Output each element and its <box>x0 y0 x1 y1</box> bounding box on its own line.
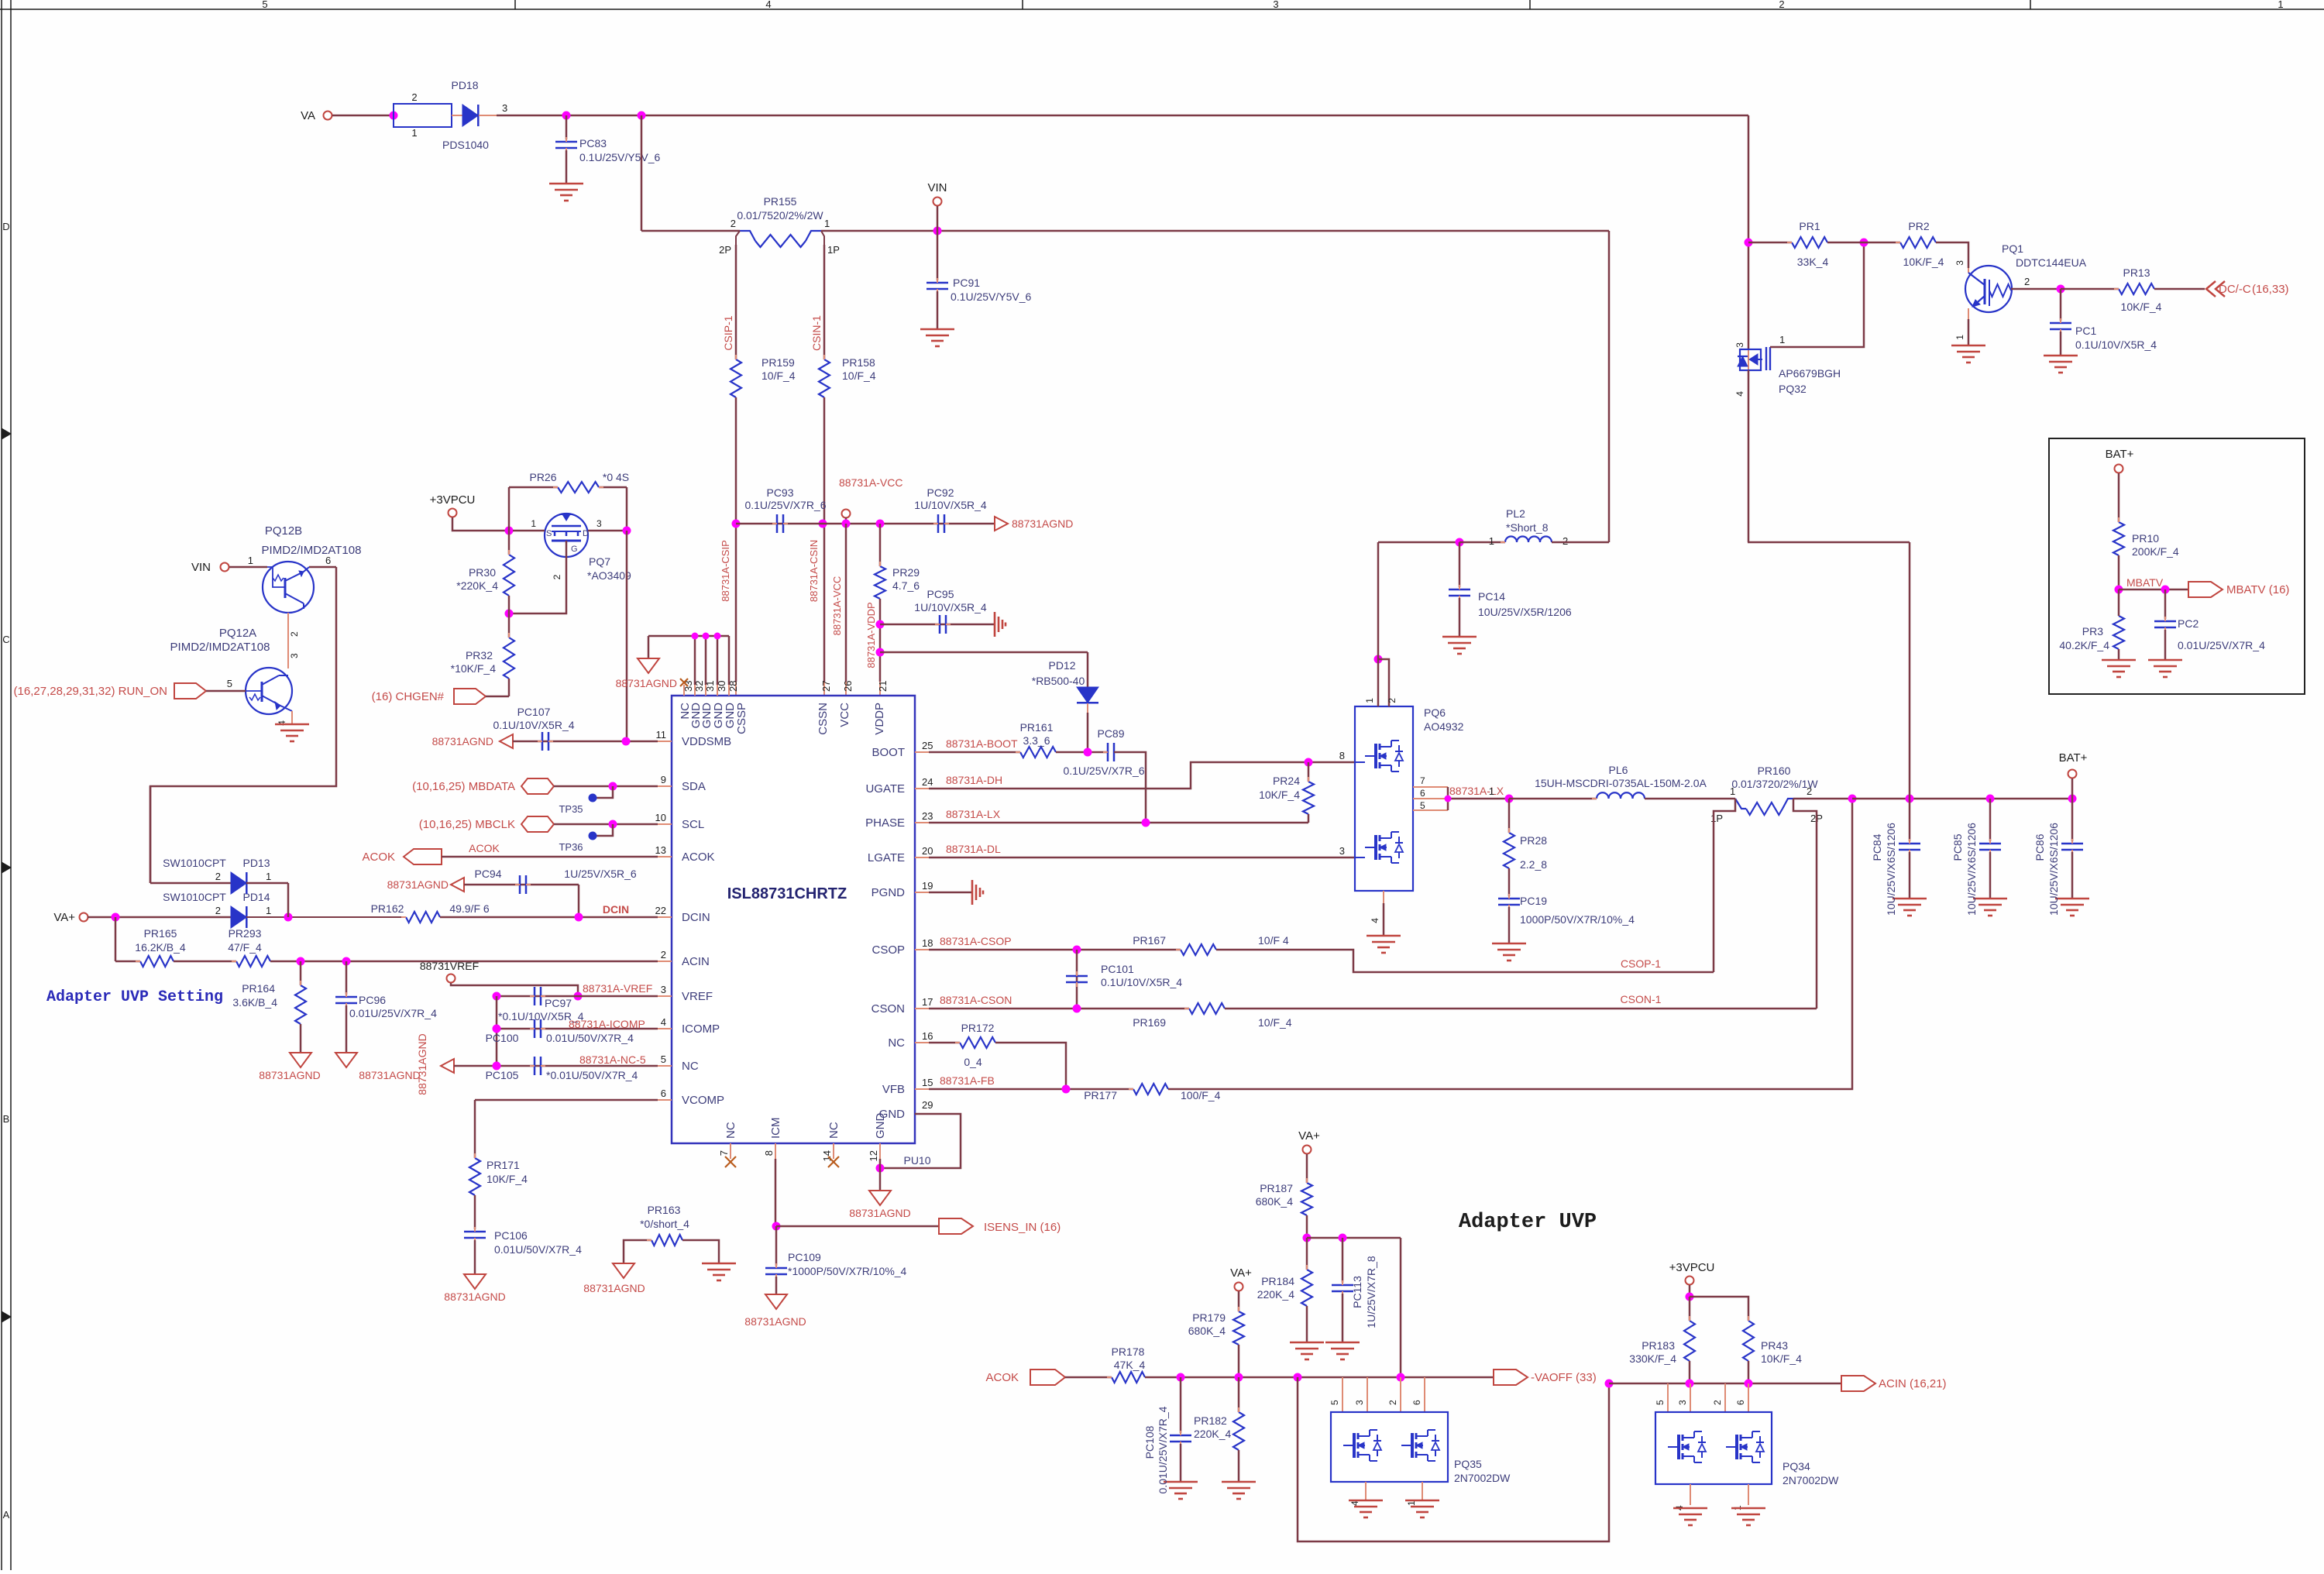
svg-text:PR172: PR172 <box>961 1022 995 1034</box>
svg-text:DDTC144EUA: DDTC144EUA <box>2016 256 2087 269</box>
svg-text:88731AGND: 88731AGND <box>849 1207 910 1219</box>
svg-text:PIMD2/IMD2AT108: PIMD2/IMD2AT108 <box>262 544 362 557</box>
svg-text:2: 2 <box>1807 785 1812 797</box>
svg-text:27: 27 <box>820 681 832 692</box>
svg-text:7: 7 <box>718 1150 730 1156</box>
svg-text:BOOT: BOOT <box>871 746 905 759</box>
svg-text:2: 2 <box>1387 698 1397 703</box>
svg-text:ACOK: ACOK <box>469 842 500 854</box>
svg-text:ACOK: ACOK <box>682 851 715 864</box>
svg-text:PHASE: PHASE <box>865 816 905 830</box>
svg-text:ACOK: ACOK <box>985 1371 1019 1384</box>
svg-text:CSSN: CSSN <box>816 703 830 735</box>
svg-text:PC107: PC107 <box>517 706 551 718</box>
svg-text:VA+: VA+ <box>53 911 75 924</box>
svg-text:ISL88731CHRTZ: ISL88731CHRTZ <box>727 885 847 902</box>
svg-text:24: 24 <box>922 776 933 788</box>
svg-text:Adapter UVP Setting: Adapter UVP Setting <box>46 988 223 1006</box>
svg-text:DCIN: DCIN <box>603 903 629 916</box>
svg-text:SCL: SCL <box>682 818 704 831</box>
svg-text:680K_4: 680K_4 <box>1188 1325 1226 1337</box>
svg-text:88731AGND: 88731AGND <box>387 878 449 891</box>
svg-text:5: 5 <box>1420 800 1425 811</box>
svg-text:200K/F_4: 200K/F_4 <box>2132 545 2179 558</box>
svg-text:SW1010CPT: SW1010CPT <box>163 857 226 869</box>
svg-text:680K_4: 680K_4 <box>1256 1195 1293 1208</box>
svg-text:NC: NC <box>682 1060 699 1073</box>
svg-text:1U/25V/X7R_8: 1U/25V/X7R_8 <box>1365 1256 1377 1328</box>
svg-text:VDDP: VDDP <box>873 703 886 735</box>
svg-text:220K_4: 220K_4 <box>1257 1288 1294 1301</box>
svg-text:10K/F_4: 10K/F_4 <box>1903 256 1944 268</box>
svg-text:VFB: VFB <box>882 1083 905 1096</box>
svg-text:13: 13 <box>655 844 666 856</box>
svg-text:PR161: PR161 <box>1020 721 1054 734</box>
svg-text:1U/10V/X5R_4: 1U/10V/X5R_4 <box>914 601 987 613</box>
svg-text:*Short_8: *Short_8 <box>1506 521 1549 534</box>
svg-text:PQ6: PQ6 <box>1424 706 1446 719</box>
svg-text:1: 1 <box>411 127 417 139</box>
svg-text:2: 2 <box>731 218 736 229</box>
svg-text:PR165: PR165 <box>144 927 177 940</box>
svg-text:PR30: PR30 <box>469 566 496 579</box>
svg-text:0.01U/50V/X7R_4: 0.01U/50V/X7R_4 <box>494 1243 582 1256</box>
svg-text:PC113: PC113 <box>1351 1276 1363 1308</box>
svg-text:1: 1 <box>1489 535 1494 547</box>
svg-text:1: 1 <box>266 871 271 882</box>
svg-text:1: 1 <box>248 555 253 566</box>
svg-text:49.9/F 6: 49.9/F 6 <box>449 902 490 915</box>
svg-text:10/F_4: 10/F_4 <box>761 369 796 382</box>
svg-text:47/F_4: 47/F_4 <box>228 941 262 954</box>
svg-text:PR158: PR158 <box>842 356 875 369</box>
svg-text:1: 1 <box>1954 335 1965 340</box>
svg-text:PR160: PR160 <box>1758 765 1791 777</box>
svg-text:PC1: PC1 <box>2075 325 2096 337</box>
svg-text:88731A-VDDP: 88731A-VDDP <box>865 602 877 668</box>
svg-text:2N7002DW: 2N7002DW <box>1783 1474 1839 1486</box>
svg-text:1: 1 <box>266 905 271 916</box>
svg-text:PR26: PR26 <box>529 471 556 483</box>
svg-text:NC: NC <box>827 1122 841 1139</box>
svg-text:+3VPCU: +3VPCU <box>430 493 476 507</box>
svg-text:0.1U/25V/X7R_6: 0.1U/25V/X7R_6 <box>744 499 826 511</box>
svg-text:Adapter UVP: Adapter UVP <box>1459 1211 1597 1234</box>
svg-text:4: 4 <box>765 0 771 10</box>
svg-text:88731AGND: 88731AGND <box>416 1033 428 1095</box>
svg-text:BAT+: BAT+ <box>2106 448 2134 461</box>
svg-text:2: 2 <box>1563 535 1568 547</box>
svg-text:PR1: PR1 <box>1799 220 1820 232</box>
svg-text:PR32: PR32 <box>466 649 493 662</box>
svg-text:PC95: PC95 <box>927 588 954 600</box>
svg-text:12: 12 <box>868 1150 879 1161</box>
svg-text:88731A-NC-5: 88731A-NC-5 <box>579 1053 646 1066</box>
svg-text:VA+: VA+ <box>1298 1129 1320 1143</box>
svg-text:PQ12B: PQ12B <box>265 524 302 538</box>
svg-text:PC105: PC105 <box>486 1069 519 1081</box>
svg-text:330K/F_4: 330K/F_4 <box>1629 1352 1676 1365</box>
svg-text:PR162: PR162 <box>371 902 404 915</box>
svg-text:PQ1: PQ1 <box>2002 242 2023 255</box>
svg-text:PC2: PC2 <box>2178 617 2199 630</box>
svg-text:0.01U/50V/X7R_4: 0.01U/50V/X7R_4 <box>546 1032 634 1044</box>
svg-text:9: 9 <box>661 774 666 785</box>
svg-text:0.01U/25V/X7R_4: 0.01U/25V/X7R_4 <box>2178 639 2265 651</box>
svg-text:3.6K/B_4: 3.6K/B_4 <box>232 996 277 1009</box>
svg-text:5: 5 <box>227 678 232 689</box>
svg-text:VA: VA <box>301 109 315 122</box>
svg-text:0.1U/25V/Y5V_6: 0.1U/25V/Y5V_6 <box>579 151 661 163</box>
svg-text:6: 6 <box>1420 788 1425 799</box>
svg-text:10/F 4: 10/F 4 <box>1258 934 1289 947</box>
svg-text:PDS1040: PDS1040 <box>442 139 489 151</box>
svg-text:PR43: PR43 <box>1761 1339 1788 1352</box>
svg-text:1P: 1P <box>1710 813 1723 824</box>
svg-text:UGATE: UGATE <box>865 782 905 796</box>
svg-text:1: 1 <box>1489 785 1494 797</box>
svg-text:3: 3 <box>1273 0 1278 10</box>
svg-text:CSON-1: CSON-1 <box>1621 993 1662 1005</box>
svg-text:88731AGND: 88731AGND <box>444 1290 505 1303</box>
svg-text:0.1U/10V/X5R_4: 0.1U/10V/X5R_4 <box>1101 976 1182 988</box>
svg-text:8: 8 <box>1339 750 1345 761</box>
svg-text:PR183: PR183 <box>1642 1339 1675 1352</box>
svg-text:PR184: PR184 <box>1261 1275 1294 1287</box>
svg-text:0_4: 0_4 <box>964 1056 982 1068</box>
svg-text:*RB500-40: *RB500-40 <box>1032 675 1085 687</box>
svg-text:B: B <box>3 1113 10 1125</box>
svg-text:VDDSMB: VDDSMB <box>682 735 731 748</box>
svg-text:A: A <box>3 1509 10 1521</box>
svg-text:2: 2 <box>2024 276 2030 287</box>
svg-text:6: 6 <box>1411 1400 1422 1405</box>
svg-text:47K_4: 47K_4 <box>1114 1359 1146 1371</box>
svg-text:1: 1 <box>531 518 536 529</box>
svg-text:1U/10V/X5R_4: 1U/10V/X5R_4 <box>914 499 987 511</box>
svg-text:2: 2 <box>1779 0 1784 10</box>
svg-text:7: 7 <box>1420 775 1425 786</box>
svg-text:1P: 1P <box>827 244 840 256</box>
svg-text:PC101: PC101 <box>1101 963 1134 975</box>
svg-text:5: 5 <box>661 1053 666 1065</box>
svg-text:10U/25V/X6S/1206: 10U/25V/X6S/1206 <box>1885 823 1897 916</box>
svg-text:88731AGND: 88731AGND <box>432 735 493 747</box>
svg-text:PC109: PC109 <box>788 1251 821 1263</box>
svg-text:(16,33): (16,33) <box>2252 283 2289 296</box>
svg-text:PQ34: PQ34 <box>1783 1460 1810 1473</box>
svg-text:6: 6 <box>325 555 331 566</box>
svg-text:10K/F_4: 10K/F_4 <box>486 1173 528 1185</box>
svg-text:*0/short_4: *0/short_4 <box>640 1218 689 1230</box>
svg-text:3.3_6: 3.3_6 <box>1023 734 1050 747</box>
svg-text:*1000P/50V/X7R/10%_4: *1000P/50V/X7R/10%_4 <box>788 1265 907 1277</box>
svg-text:88731A-CSIN: 88731A-CSIN <box>808 540 820 602</box>
svg-text:PC92: PC92 <box>927 486 954 499</box>
svg-text:CSOP: CSOP <box>871 943 905 957</box>
svg-text:3: 3 <box>661 984 666 995</box>
svg-text:VIN: VIN <box>927 181 947 194</box>
svg-text:1: 1 <box>1730 785 1735 797</box>
svg-text:88731AGND: 88731AGND <box>359 1069 420 1081</box>
svg-text:3: 3 <box>1734 342 1745 348</box>
svg-text:8: 8 <box>763 1150 775 1156</box>
svg-text:-VAOFF (33): -VAOFF (33) <box>1531 1371 1597 1384</box>
svg-text:88731A-CSIP: 88731A-CSIP <box>720 540 731 602</box>
svg-text:2.2_8: 2.2_8 <box>1520 858 1547 871</box>
svg-text:10/F_4: 10/F_4 <box>1258 1016 1292 1029</box>
svg-text:PR13: PR13 <box>2123 266 2150 279</box>
svg-text:2: 2 <box>289 631 300 637</box>
svg-text:6: 6 <box>1735 1400 1746 1405</box>
svg-text:ICOMP: ICOMP <box>682 1022 720 1036</box>
svg-text:VCC: VCC <box>838 703 851 727</box>
svg-text:10U/25V/X6S/1206: 10U/25V/X6S/1206 <box>2047 823 2060 916</box>
svg-text:SDA: SDA <box>682 780 706 793</box>
svg-text:PD12: PD12 <box>1048 659 1075 672</box>
svg-text:PU10: PU10 <box>903 1154 930 1167</box>
svg-text:*220K_4: *220K_4 <box>456 579 498 592</box>
svg-text:33K_4: 33K_4 <box>1797 256 1829 268</box>
svg-text:25: 25 <box>922 740 933 751</box>
svg-text:GND: GND <box>874 1113 887 1139</box>
svg-text:10K/F_4: 10K/F_4 <box>2121 301 2162 313</box>
svg-text:CSON: CSON <box>871 1002 905 1016</box>
svg-text:16: 16 <box>922 1030 933 1042</box>
svg-text:1: 1 <box>1779 334 1785 345</box>
svg-text:88731AGND: 88731AGND <box>744 1315 806 1328</box>
svg-text:0.01U/25V/X7R_4: 0.01U/25V/X7R_4 <box>1157 1406 1169 1493</box>
svg-text:0.01/3720/2%/1W: 0.01/3720/2%/1W <box>1731 778 1818 790</box>
svg-text:PQ12A: PQ12A <box>219 627 256 640</box>
svg-text:100/F_4: 100/F_4 <box>1181 1089 1221 1101</box>
svg-text:4: 4 <box>661 1016 666 1028</box>
svg-text:3: 3 <box>1354 1400 1365 1405</box>
svg-text:88731A-VCC: 88731A-VCC <box>831 576 843 636</box>
svg-text:*AO3409: *AO3409 <box>587 569 631 582</box>
svg-text:3: 3 <box>596 518 602 529</box>
svg-text:2: 2 <box>411 91 417 103</box>
svg-text:3: 3 <box>502 102 507 114</box>
svg-text:TP35: TP35 <box>559 803 583 815</box>
svg-text:88731A-CSON: 88731A-CSON <box>940 994 1012 1006</box>
svg-text:PR2: PR2 <box>1908 220 1929 232</box>
svg-text:88731A-ICOMP: 88731A-ICOMP <box>569 1018 645 1030</box>
svg-text:ISENS_IN (16): ISENS_IN (16) <box>984 1221 1061 1234</box>
svg-text:88731AGND: 88731AGND <box>1012 517 1073 530</box>
svg-text:BAT+: BAT+ <box>2059 751 2088 765</box>
svg-text:4: 4 <box>1370 918 1380 923</box>
svg-text:AP6679BGH: AP6679BGH <box>1779 367 1841 380</box>
svg-text:MBATV (16): MBATV (16) <box>2226 583 2289 596</box>
svg-text:0.1U/10V/X5R_4: 0.1U/10V/X5R_4 <box>2075 339 2157 351</box>
svg-text:PC106: PC106 <box>494 1229 528 1242</box>
svg-text:PR28: PR28 <box>1520 834 1547 847</box>
svg-text:15: 15 <box>922 1077 933 1088</box>
svg-text:2N7002DW: 2N7002DW <box>1454 1472 1511 1484</box>
svg-text:D: D <box>2 221 9 232</box>
svg-text:4.7_6: 4.7_6 <box>892 579 920 592</box>
svg-text:(10,16,25) MBCLK: (10,16,25) MBCLK <box>419 818 515 831</box>
svg-text:0.01U/25V/X7R_4: 0.01U/25V/X7R_4 <box>349 1007 437 1019</box>
svg-text:AO4932: AO4932 <box>1424 720 1464 733</box>
svg-text:PC94: PC94 <box>474 868 501 880</box>
svg-text:10K/F_4: 10K/F_4 <box>1259 789 1300 801</box>
svg-text:11: 11 <box>656 729 667 741</box>
svg-text:88731A-CSOP: 88731A-CSOP <box>940 935 1012 947</box>
svg-text:S: S <box>546 529 552 538</box>
svg-text:+3VPCU: +3VPCU <box>1669 1261 1715 1274</box>
svg-text:PC85: PC85 <box>1951 833 1964 861</box>
svg-text:(16,27,28,29,31,32) RUN_ON: (16,27,28,29,31,32) RUN_ON <box>14 685 167 698</box>
svg-text:PR169: PR169 <box>1133 1016 1166 1029</box>
svg-text:88731AGND: 88731AGND <box>583 1282 645 1294</box>
svg-text:88731A-BOOT: 88731A-BOOT <box>946 737 1018 750</box>
svg-text:26: 26 <box>842 681 854 692</box>
svg-text:4: 4 <box>1734 391 1745 397</box>
svg-text:3: 3 <box>1954 260 1965 266</box>
svg-text:PR24: PR24 <box>1273 775 1300 787</box>
svg-text:PC84: PC84 <box>1871 833 1883 861</box>
svg-text:10U/25V/X5R/1206: 10U/25V/X5R/1206 <box>1478 606 1572 618</box>
svg-text:*10K/F_4: *10K/F_4 <box>451 662 497 675</box>
svg-text:PC108: PC108 <box>1143 1425 1156 1459</box>
svg-text:MBATV: MBATV <box>2126 576 2164 589</box>
svg-text:PGND: PGND <box>871 886 906 899</box>
svg-text:PC91: PC91 <box>953 277 980 289</box>
svg-text:PC89: PC89 <box>1097 727 1124 740</box>
svg-text:2: 2 <box>661 949 666 961</box>
svg-text:PR187: PR187 <box>1260 1182 1293 1194</box>
svg-text:1: 1 <box>1364 698 1375 703</box>
svg-text:2P: 2P <box>719 244 731 256</box>
svg-text:0.1U/10V/X5R_4: 0.1U/10V/X5R_4 <box>493 719 574 731</box>
svg-text:PR29: PR29 <box>892 566 920 579</box>
svg-text:PR164: PR164 <box>242 982 275 995</box>
svg-text:5: 5 <box>1329 1400 1340 1405</box>
svg-text:PR159: PR159 <box>761 356 795 369</box>
svg-text:21: 21 <box>877 681 889 692</box>
svg-text:0.01/7520/2%/2W: 0.01/7520/2%/2W <box>737 209 823 222</box>
svg-text:VREF: VREF <box>682 990 713 1003</box>
svg-text:PR171: PR171 <box>486 1159 520 1171</box>
svg-text:ACIN (16,21): ACIN (16,21) <box>1879 1377 1947 1390</box>
svg-text:3: 3 <box>1339 845 1345 857</box>
svg-text:17: 17 <box>922 996 933 1008</box>
svg-text:PR177: PR177 <box>1084 1089 1117 1101</box>
svg-text:NC: NC <box>724 1122 737 1139</box>
svg-text:*0.01U/50V/X7R_4: *0.01U/50V/X7R_4 <box>546 1069 638 1081</box>
svg-text:PR178: PR178 <box>1112 1345 1145 1358</box>
svg-text:(10,16,25) MBDATA: (10,16,25) MBDATA <box>412 780 515 793</box>
svg-text:PR167: PR167 <box>1133 934 1166 947</box>
svg-text:PD18: PD18 <box>451 79 478 91</box>
svg-text:CSSP: CSSP <box>735 703 748 734</box>
svg-text:2: 2 <box>215 905 221 916</box>
svg-text:10K/F_4: 10K/F_4 <box>1761 1352 1802 1365</box>
svg-text:5: 5 <box>262 0 267 10</box>
svg-text:D: D <box>583 529 589 538</box>
svg-text:15UH-MSCDRI-0735AL-150M-2.0A: 15UH-MSCDRI-0735AL-150M-2.0A <box>1535 777 1707 789</box>
svg-text:ICM: ICM <box>769 1118 782 1139</box>
svg-text:1: 1 <box>824 218 830 229</box>
svg-text:20: 20 <box>922 845 933 857</box>
svg-text:PL6: PL6 <box>1609 764 1628 776</box>
svg-text:0.1U/25V/X7R_6: 0.1U/25V/X7R_6 <box>1063 765 1144 777</box>
svg-text:19: 19 <box>922 880 933 892</box>
svg-text:2: 2 <box>1712 1400 1723 1405</box>
svg-text:88731A-LX: 88731A-LX <box>946 808 1001 820</box>
svg-text:PD13: PD13 <box>242 857 270 869</box>
svg-text:88731A-DL: 88731A-DL <box>946 843 1001 855</box>
svg-text:PR293: PR293 <box>229 927 262 940</box>
svg-text:16.2K/B_4: 16.2K/B_4 <box>135 941 186 954</box>
svg-text:CSIN-1: CSIN-1 <box>810 315 823 351</box>
svg-text:PC100: PC100 <box>486 1032 519 1044</box>
svg-text:PQ32: PQ32 <box>1779 383 1807 395</box>
svg-text:2: 2 <box>552 574 562 579</box>
svg-text:PR10: PR10 <box>2132 532 2159 545</box>
svg-text:PC83: PC83 <box>579 137 607 149</box>
svg-text:1: 1 <box>2278 0 2283 10</box>
svg-text:88731A-LX: 88731A-LX <box>1449 785 1504 797</box>
svg-text:6: 6 <box>661 1088 666 1099</box>
svg-text:5: 5 <box>1655 1400 1666 1405</box>
svg-text:ACOK: ACOK <box>362 851 395 864</box>
svg-text:PC97: PC97 <box>545 997 572 1009</box>
svg-text:DC/-C: DC/-C <box>2219 283 2251 296</box>
svg-text:TP36: TP36 <box>559 841 583 853</box>
svg-text:PR163: PR163 <box>648 1204 681 1216</box>
svg-text:88731A-VCC: 88731A-VCC <box>839 476 903 489</box>
svg-text:DCIN: DCIN <box>682 911 710 924</box>
svg-text:PR179: PR179 <box>1192 1311 1226 1324</box>
svg-text:PR182: PR182 <box>1194 1414 1227 1427</box>
svg-text:PC93: PC93 <box>766 486 793 499</box>
svg-text:88731A-DH: 88731A-DH <box>946 774 1002 786</box>
svg-text:29: 29 <box>922 1099 933 1111</box>
svg-text:22: 22 <box>655 905 666 916</box>
svg-text:NC: NC <box>888 1036 905 1050</box>
svg-text:88731A-VREF: 88731A-VREF <box>583 982 652 995</box>
svg-text:PC19: PC19 <box>1520 895 1547 907</box>
svg-text:40.2K/F_4: 40.2K/F_4 <box>2059 639 2109 651</box>
svg-text:18: 18 <box>922 937 933 949</box>
svg-text:PC86: PC86 <box>2033 833 2046 861</box>
svg-text:220K_4: 220K_4 <box>1194 1428 1231 1440</box>
svg-text:VA+: VA+ <box>1230 1266 1252 1280</box>
svg-text:*0 4S: *0 4S <box>603 471 629 483</box>
svg-text:1000P/50V/X7R/10%_4: 1000P/50V/X7R/10%_4 <box>1520 913 1635 926</box>
svg-text:88731AGND: 88731AGND <box>259 1069 320 1081</box>
svg-text:PQ7: PQ7 <box>589 555 610 568</box>
svg-text:10: 10 <box>655 812 666 823</box>
svg-text:SW1010CPT: SW1010CPT <box>163 891 226 903</box>
svg-text:3: 3 <box>289 653 300 658</box>
svg-text:VIN: VIN <box>191 561 211 574</box>
svg-text:PQ35: PQ35 <box>1454 1458 1482 1470</box>
svg-text:10U/25V/X6S/1206: 10U/25V/X6S/1206 <box>1965 823 1978 916</box>
svg-text:2: 2 <box>215 871 221 882</box>
svg-text:PR3: PR3 <box>2082 625 2103 638</box>
svg-text:2: 2 <box>1387 1400 1398 1405</box>
svg-text:88731AGND: 88731AGND <box>616 677 677 689</box>
svg-text:G: G <box>571 545 578 554</box>
svg-text:ACIN: ACIN <box>682 955 710 968</box>
svg-text:(16) CHGEN#: (16) CHGEN# <box>372 690 445 703</box>
svg-text:23: 23 <box>922 810 933 822</box>
svg-text:PC14: PC14 <box>1478 590 1505 603</box>
